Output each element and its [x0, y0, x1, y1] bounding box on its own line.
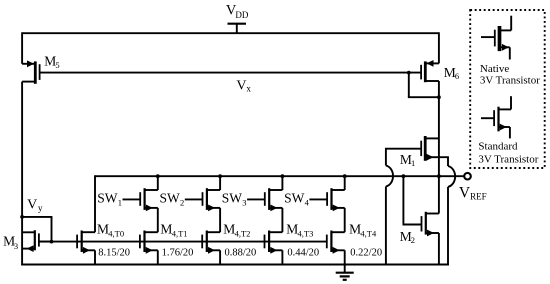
junction dot VREF cell 3	[281, 174, 285, 178]
junction dot right rail	[437, 95, 441, 99]
label M1	[400, 152, 415, 168]
svg-text:Standard: Standard	[478, 140, 518, 152]
transistor M6	[421, 60, 439, 82]
wire gate bus Vy	[39, 241, 327, 243]
VDD supply symbol	[228, 24, 247, 34]
svg-text:3: 3	[242, 197, 246, 207]
wire node Vx	[40, 72, 422, 74]
svg-text:REF: REF	[470, 192, 487, 202]
svg-text:4,T4: 4,T4	[360, 229, 377, 239]
svg-text:4,T1: 4,T1	[172, 229, 188, 239]
wire right rail middle	[438, 81, 440, 214]
svg-text:4,T2: 4,T2	[235, 229, 251, 239]
legend label Standard	[478, 140, 538, 165]
svg-text:M: M	[97, 221, 109, 236]
junction dot VREF cell 1	[156, 174, 160, 178]
svg-text:SW: SW	[284, 190, 305, 205]
svg-text:8.15/20: 8.15/20	[98, 248, 130, 259]
svg-text:5: 5	[55, 60, 59, 70]
transistor M4,T2	[202, 231, 220, 254]
wire SW1 source to M4,T1 drain	[157, 208, 159, 232]
wire M4,T0 source to ground	[94, 250, 96, 264]
junction dot Vy rail	[20, 215, 24, 219]
label M4,T0	[97, 221, 124, 238]
legend native transistor	[481, 16, 511, 60]
switch transistor SW2	[185, 188, 220, 211]
terminal VREF	[464, 173, 471, 180]
wire M4,T2 source to ground	[219, 250, 221, 264]
transistor M1	[385, 136, 449, 161]
label M2	[400, 229, 415, 245]
legend label Native	[480, 63, 540, 87]
label M4,T1	[160, 221, 187, 238]
svg-text:0.22/20: 0.22/20	[350, 248, 382, 259]
transistor M4,T0	[77, 231, 95, 254]
wire left rail upper	[21, 32, 23, 64]
svg-text:M: M	[286, 221, 298, 236]
value label 1.76/20	[162, 248, 194, 259]
junction dot Vy gate bus	[50, 240, 54, 244]
svg-text:0.44/20: 0.44/20	[287, 248, 319, 259]
svg-text:4: 4	[305, 197, 310, 207]
junction dot VREF cell 2	[218, 174, 222, 178]
svg-text:4,T0: 4,T0	[108, 229, 124, 239]
svg-text:3: 3	[14, 241, 18, 251]
label Vy	[27, 198, 43, 214]
wire node Vy	[22, 217, 52, 242]
label SW1	[97, 190, 122, 207]
svg-text:6: 6	[455, 71, 459, 81]
value label 8.15/20	[98, 248, 130, 259]
wire M2 source to ground	[438, 233, 440, 265]
legend box	[470, 10, 545, 168]
junction dot M2 gate	[402, 174, 406, 178]
svg-text:1: 1	[118, 197, 122, 207]
wire hop M1 source	[448, 166, 455, 187]
wire SW2 source to M4,T2 drain	[219, 208, 221, 232]
transistor M2	[403, 212, 439, 237]
svg-text:4,T3: 4,T3	[298, 229, 314, 239]
transistor M4,T1	[140, 231, 158, 254]
svg-text:3V Transistor: 3V Transistor	[478, 153, 538, 165]
label SW3	[222, 190, 247, 207]
svg-text:V: V	[27, 198, 37, 213]
wire ground stub	[344, 265, 346, 273]
transistor M3	[22, 230, 51, 252]
ground	[336, 273, 354, 280]
wire SW2 drain to VREF	[219, 176, 221, 190]
svg-text:V: V	[236, 79, 246, 94]
wire M4,T1 source to ground	[157, 250, 159, 264]
switch transistor SW1	[123, 188, 158, 211]
svg-text:Native: Native	[480, 63, 509, 75]
svg-text:M: M	[160, 221, 172, 236]
label M6	[444, 65, 459, 81]
wire M4,T3 source to ground	[281, 250, 283, 264]
svg-text:V: V	[459, 185, 471, 202]
wire SW4 source to M4,T4 drain	[344, 208, 346, 232]
value label 0.22/20	[350, 248, 382, 259]
wire SW3 source to M4,T3 drain	[281, 208, 283, 232]
label Vx	[236, 79, 251, 94]
label VDD	[226, 3, 249, 20]
legend standard transistor	[481, 96, 511, 138]
label SW2	[160, 190, 185, 207]
label M4,T4	[349, 221, 377, 238]
svg-text:M: M	[349, 221, 361, 236]
wire M4,T4 source to ground	[344, 250, 346, 264]
junction dot Vx	[407, 71, 411, 75]
label M3	[3, 234, 18, 251]
svg-text:SW: SW	[222, 190, 243, 205]
wire SW3 drain to VREF	[281, 176, 283, 190]
wire right rail top	[438, 32, 440, 63]
svg-text:2: 2	[411, 235, 415, 245]
svg-text:1.76/20: 1.76/20	[162, 248, 194, 259]
wire M6 gate feedback	[408, 73, 440, 98]
label SW4	[284, 190, 310, 207]
transistor M4,T3	[265, 231, 283, 254]
label M4,T3	[286, 221, 313, 238]
transistor M5	[22, 60, 39, 83]
svg-text:SW: SW	[160, 190, 181, 205]
svg-text:0.88/20: 0.88/20	[225, 248, 257, 259]
junction dot VREF cell 4	[343, 174, 347, 178]
switch transistor SW4	[309, 188, 344, 211]
wire M1 gate to ground	[385, 149, 387, 266]
wire M1 source to ground	[447, 157, 449, 265]
svg-text:M: M	[223, 221, 235, 236]
power rail VDD (top)	[22, 32, 439, 34]
svg-text:1: 1	[411, 158, 415, 168]
wire hop M1 gate	[386, 166, 393, 187]
transistor M4,T4	[327, 231, 345, 254]
svg-text:DD: DD	[235, 10, 248, 20]
label VREF	[459, 185, 487, 202]
wire left rail lower	[21, 82, 23, 266]
svg-text:3V Transistor: 3V Transistor	[480, 75, 540, 87]
wire SW1 drain to VREF	[157, 176, 159, 190]
value label 0.88/20	[225, 248, 257, 259]
junction dot VREF right rail	[437, 174, 441, 178]
label M5	[44, 54, 59, 70]
svg-text:2: 2	[180, 197, 184, 207]
value label 0.44/20	[287, 248, 319, 259]
wire M4,T0 drain to VREF	[94, 175, 96, 232]
wire node VREF	[95, 175, 464, 177]
wire M2 gate to VREF	[402, 176, 404, 224]
switch transistor SW3	[247, 188, 282, 211]
wire ground rail	[21, 264, 449, 266]
wire SW4 drain to VREF	[344, 176, 346, 190]
svg-text:y: y	[38, 203, 43, 213]
svg-text:SW: SW	[97, 190, 118, 205]
svg-text:x: x	[246, 83, 251, 93]
label M4,T2	[223, 221, 250, 238]
